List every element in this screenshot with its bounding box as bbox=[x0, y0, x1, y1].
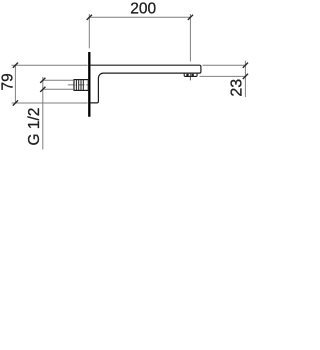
svg-text:79: 79 bbox=[0, 73, 17, 90]
svg-text:23: 23 bbox=[229, 79, 246, 97]
svg-text:200: 200 bbox=[130, 1, 156, 18]
svg-text:G 1/2: G 1/2 bbox=[26, 108, 43, 146]
